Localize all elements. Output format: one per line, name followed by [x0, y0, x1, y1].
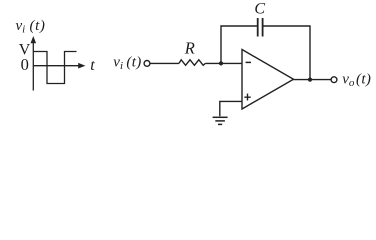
svg-text:vi(t): vi(t) — [113, 55, 141, 73]
svg-text:C: C — [254, 1, 265, 18]
svg-text:t: t — [90, 57, 95, 74]
svg-text:R: R — [184, 39, 195, 58]
svg-text:0: 0 — [21, 55, 29, 74]
svg-text:vo(t): vo(t) — [342, 71, 371, 89]
svg-text:vi(t): vi(t) — [16, 18, 46, 36]
